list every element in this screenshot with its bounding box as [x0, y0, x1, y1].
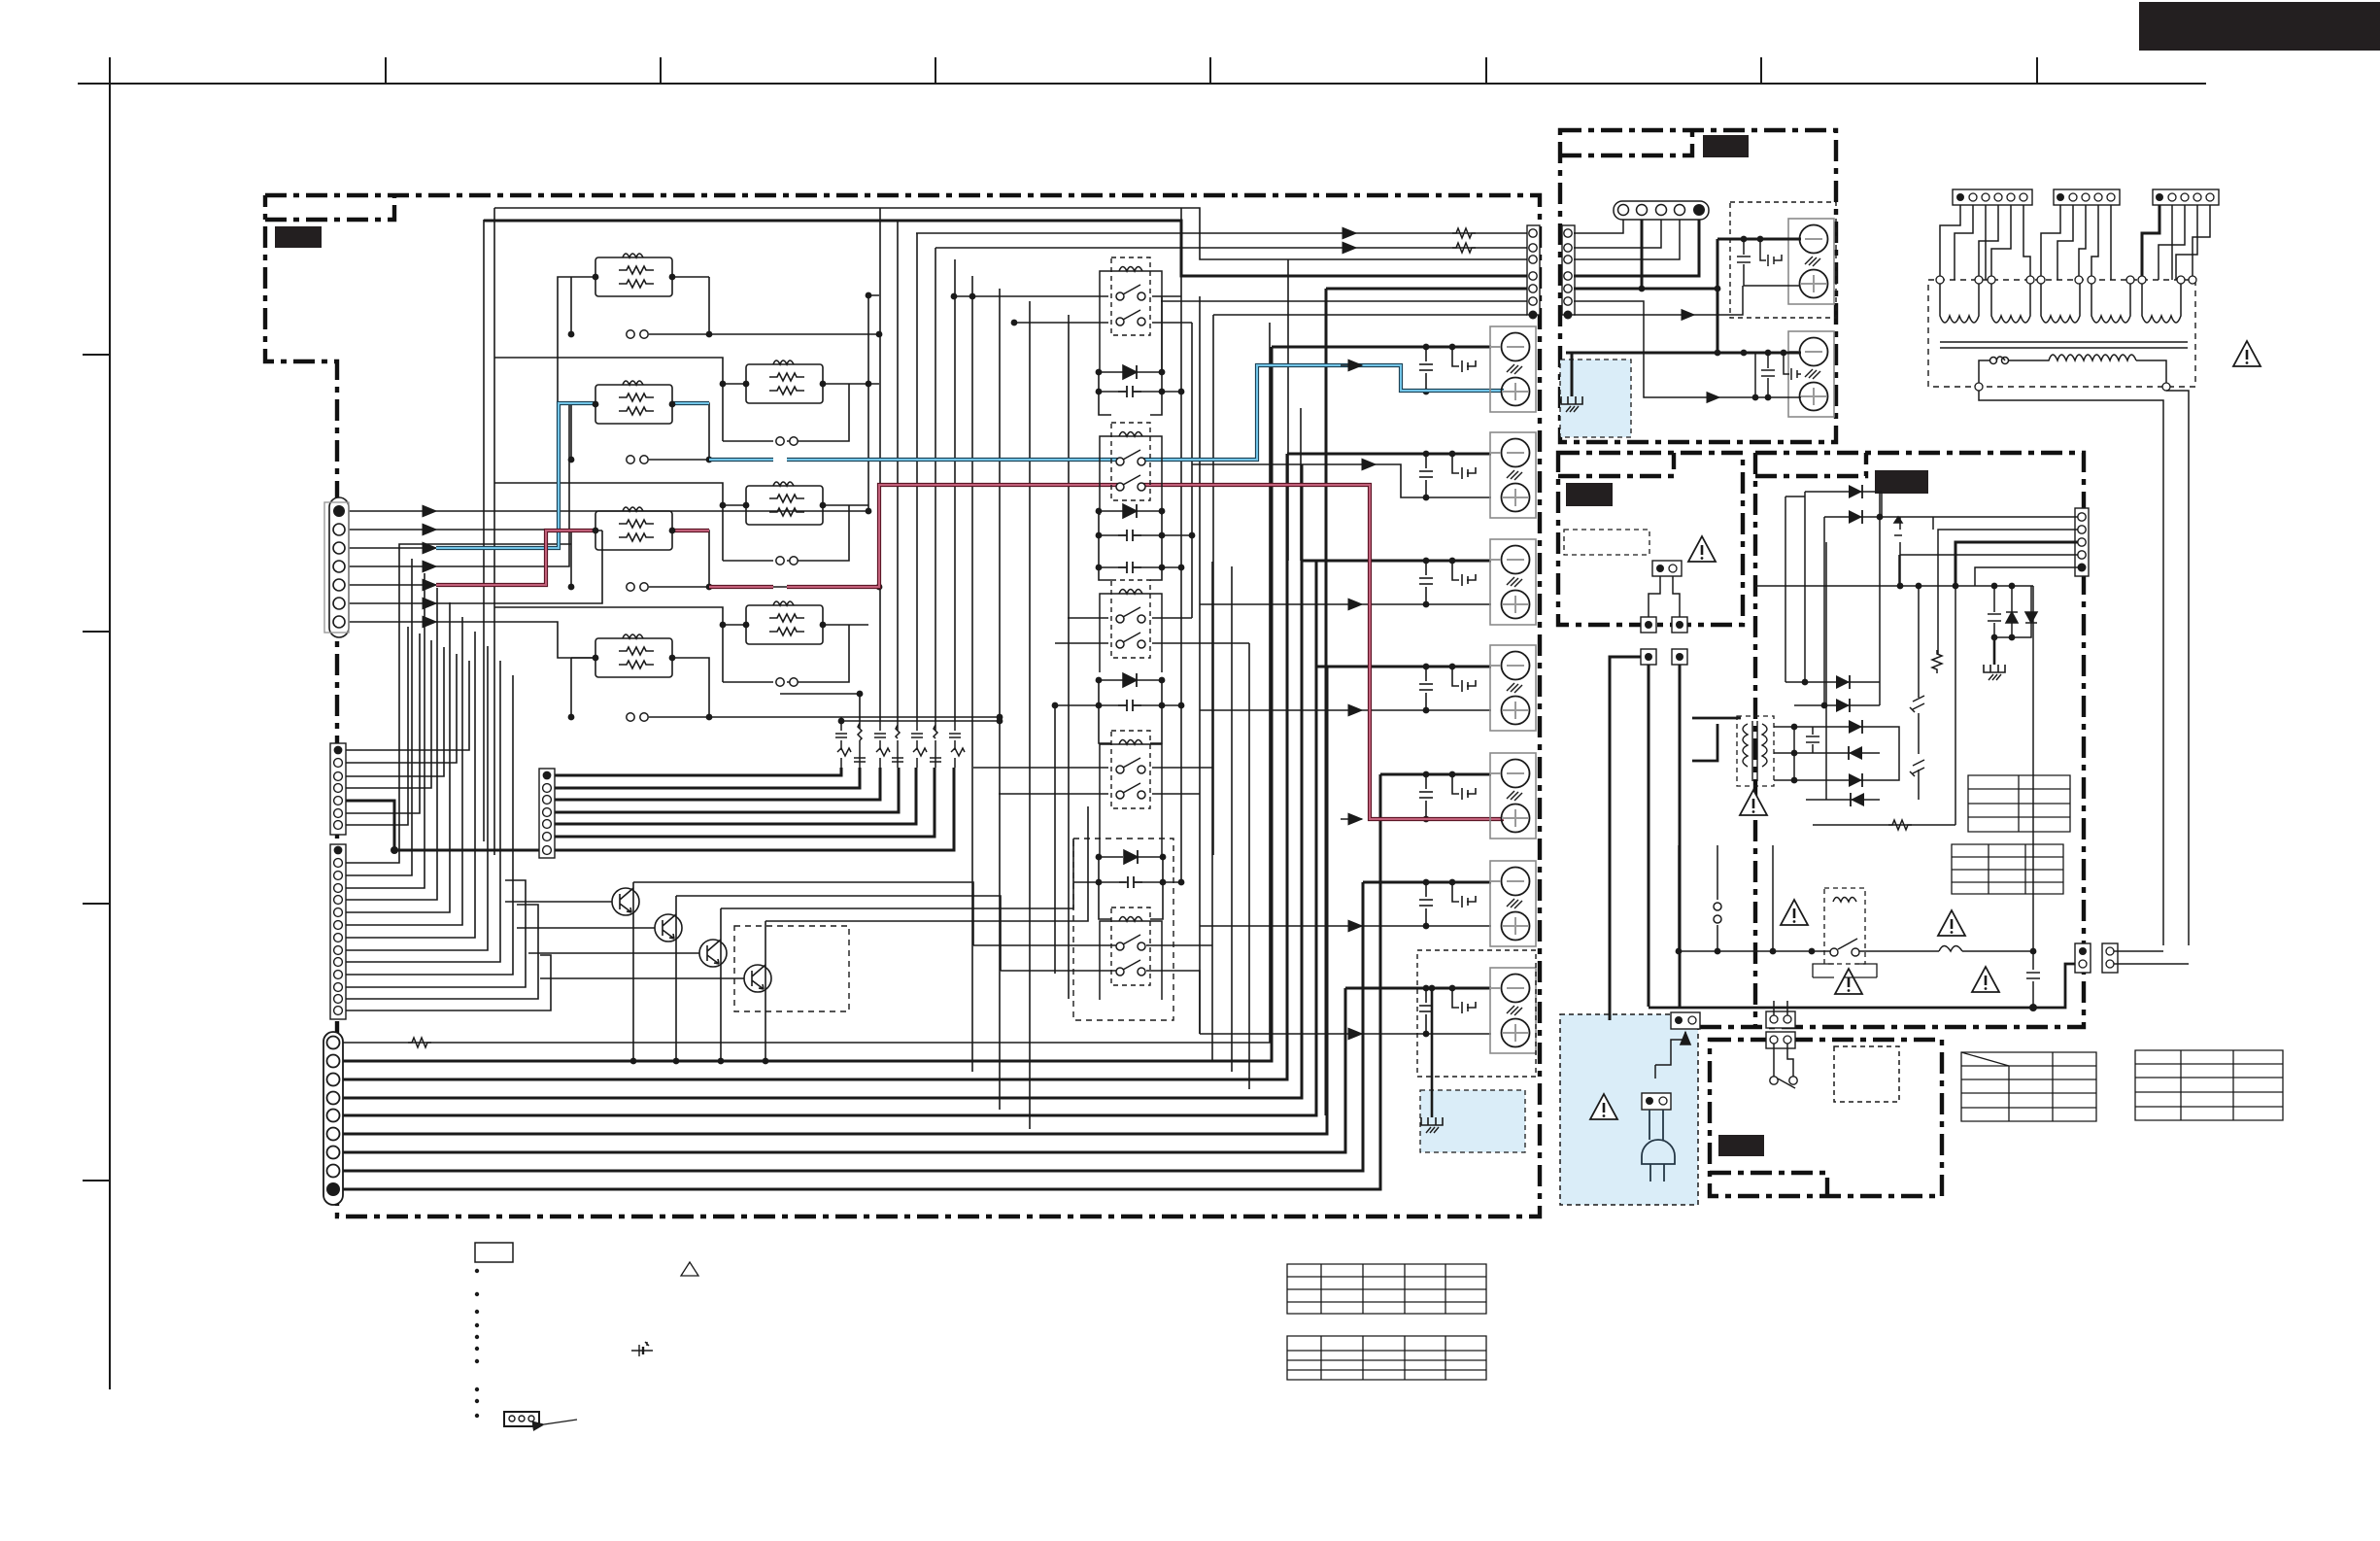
capacitors at speaker terminals [1419, 347, 1476, 1034]
voltage table (power block B) [1952, 775, 2070, 894]
resistor-coil module R/L2 [593, 381, 676, 424]
connector J5 (7-pin) [539, 769, 555, 858]
connector T2 (5-pin transformer primary) [2054, 189, 2120, 205]
zener + resistor left of connector [1894, 517, 1920, 586]
pair7 dashed enclosure [1417, 950, 1536, 1077]
cap to bottom [2026, 586, 2040, 1008]
wire: relay switch rows [954, 295, 1181, 297]
transistor Q4 [744, 965, 771, 992]
connector T1 (6-pin transformer primary) [1953, 189, 2032, 205]
thick feed wires to small transformer [1692, 718, 1741, 761]
switching transformer T902 [1737, 716, 1774, 786]
wire: J2 lines [346, 661, 469, 750]
ground area (blue box, speaker block) [1560, 360, 1631, 437]
transistor Q3 [699, 940, 727, 967]
speaker terminal pair SP4 (SL) [1490, 645, 1536, 731]
tap circles on top edge [1936, 276, 2196, 284]
resistor-coil module R/L3 [593, 507, 676, 550]
relay RY2 [1100, 423, 1162, 515]
thick wires from lower squares [1610, 657, 1680, 1020]
connector T3 (5-pin transformer primary) [2153, 189, 2219, 205]
wires from connector [1920, 517, 2078, 655]
left ruler [109, 57, 111, 1389]
speaker terminal pair SP6 (SBL) [1490, 861, 1536, 946]
battery symbol (legend) [631, 1342, 653, 1356]
wire: middle vertical bus [879, 208, 881, 721]
transistor Q4 dashed enclosure [734, 926, 849, 1011]
core [1940, 341, 2188, 343]
blue signal wire [345, 547, 436, 549]
wire: speaker minus feeds [1272, 347, 1491, 988]
table: speaker impedance chart [1287, 1264, 1486, 1380]
speaker terminal pair SP7 (SBR) [1490, 968, 1536, 1053]
wire junction dots [391, 292, 1455, 1065]
AC inlet area (blue highlight box) [1560, 1014, 1698, 1205]
wire: transistor drive lines [505, 901, 612, 903]
wire: left vertical bus [483, 220, 485, 841]
resistor-coil module R/L1 [593, 254, 676, 296]
relay RY4 [1100, 731, 1162, 823]
arrow from plug to AC inlet [1655, 1032, 1685, 1065]
red signal wire [345, 584, 436, 586]
power supply board B outline (dash-dot) [1612, 453, 2084, 1027]
relay RY5 outer dashed enclosure [1073, 839, 1173, 1020]
wire: J5 lines [555, 768, 954, 850]
diodes and capacitors (relay column) [1118, 365, 1142, 888]
relay RY901 (power block B) [1824, 888, 1865, 964]
secondary: thermal fuse + coil [1990, 358, 1997, 364]
warning triangle (power block A) [1688, 536, 1716, 562]
wire: top bus lines [494, 208, 1527, 259]
wire: module leads and bypass loops (left column) [571, 277, 709, 334]
dashed rect (power block A note) [1564, 530, 1649, 555]
wire: module input feeds [494, 358, 723, 384]
fuse coil [1939, 946, 1962, 952]
title block (black) [2139, 2, 2380, 51]
wire: J4 speaker feed staircase [343, 347, 1380, 1189]
speaker relay board outline (dash-dot) [1560, 130, 1836, 442]
connector J4 (9-pin) [323, 1032, 343, 1205]
diode ladder right of transformer [1774, 542, 1955, 825]
connector 5pin right [2075, 508, 2089, 576]
wire: relay side stubs [1100, 350, 1162, 857]
resistor + fuse column [1932, 650, 1942, 673]
resistor-coil module R/L4 [593, 634, 676, 677]
switch bus y979 [1679, 845, 2033, 977]
primary windings: humps [1940, 284, 2188, 387]
main block wiring (wires) [343, 208, 1527, 1189]
cap + 2 diodes to ground [1988, 586, 2037, 665]
resistor-coil module R/L7 [743, 601, 827, 644]
wire: J1 signal lines with arrows [345, 510, 436, 512]
cap between [1806, 727, 1819, 753]
power supply board A outline (dash-dot) [1558, 453, 1743, 625]
horizontal bus y603 [1755, 585, 2033, 587]
bypass contact pairs [627, 330, 648, 338]
speaker terminal pair SP1 (FL) [1490, 326, 1536, 412]
speaker terminal pair SP2 (FR) [1490, 432, 1536, 518]
speaker terminal pair SP5 (SR) [1490, 753, 1536, 839]
connector J2 (7-pin) [330, 743, 346, 835]
spade terminals (power block A to AC line) [1641, 617, 1687, 665]
connector J6 (7-pin, main block right edge) [1527, 225, 1540, 320]
legend notes [475, 1243, 698, 1426]
connector P1 (2-pin) [1652, 561, 1682, 576]
AC power plug [1642, 1110, 1675, 1181]
ground area (blue box, main block) [1420, 1090, 1525, 1152]
2pin terminal vertical on right edge [2075, 943, 2091, 973]
warning triangles in block B [1781, 900, 1808, 925]
wire: J3 staircase lines [346, 544, 571, 863]
AC inlet board outline (dash-dot) [1710, 1040, 1942, 1196]
top ruler line with ticks [78, 57, 2206, 1389]
speaker terminal pair SP8 (ZONE2 L) [1788, 219, 1834, 304]
main amplifier board outline (dash-dot) [265, 195, 1540, 1216]
vertical thin wires inside block B going down [1679, 492, 1933, 951]
ground wire (SP7) [1431, 988, 1434, 1117]
primary taps wires [1940, 205, 2210, 280]
capacitor/resistor row under modules [780, 693, 860, 695]
relay RY1 [1100, 257, 1162, 350]
wire: module leads (right column) [723, 384, 868, 441]
resistor-coil module R/L6 [743, 482, 827, 525]
relay RY5 [1100, 907, 1162, 1000]
relay loop caps [1813, 964, 1877, 977]
relay RY3 [1100, 580, 1162, 672]
transistor Q2 [655, 914, 682, 942]
resistor-coil module R/L5 [743, 360, 827, 403]
board label (MAIN) [275, 226, 322, 248]
2pin connectors between power B and C [1766, 1011, 1795, 1028]
power transformer T901 (dashed body) [1928, 280, 2195, 387]
3-pin connector symbol (legend) [504, 1412, 539, 1426]
wires from secondary down [1979, 391, 2189, 945]
diode/cap rows in relay column [1099, 372, 1181, 392]
table: fuse chart [1961, 1050, 2283, 1121]
speaker terminal pair SP9 (ZONE2 R) [1788, 331, 1834, 417]
transistor Q1 [612, 888, 639, 915]
connector J7 (7-pin, speaker block left edge) [1562, 225, 1575, 320]
connector J3 (14-pin) [330, 844, 346, 1019]
bottom thick bus [1649, 964, 2075, 1008]
wire: speaker plus feeds [1302, 463, 1376, 465]
warning triangle (transformer) [2233, 341, 2261, 366]
top diodes [1805, 491, 1882, 493]
speaker terminal pair SP3 (C) [1490, 539, 1536, 625]
wire: right vertical bus [1161, 296, 1163, 372]
mid diodes row [1785, 682, 1880, 705]
connector J1 (7-pin input) [324, 497, 349, 637]
